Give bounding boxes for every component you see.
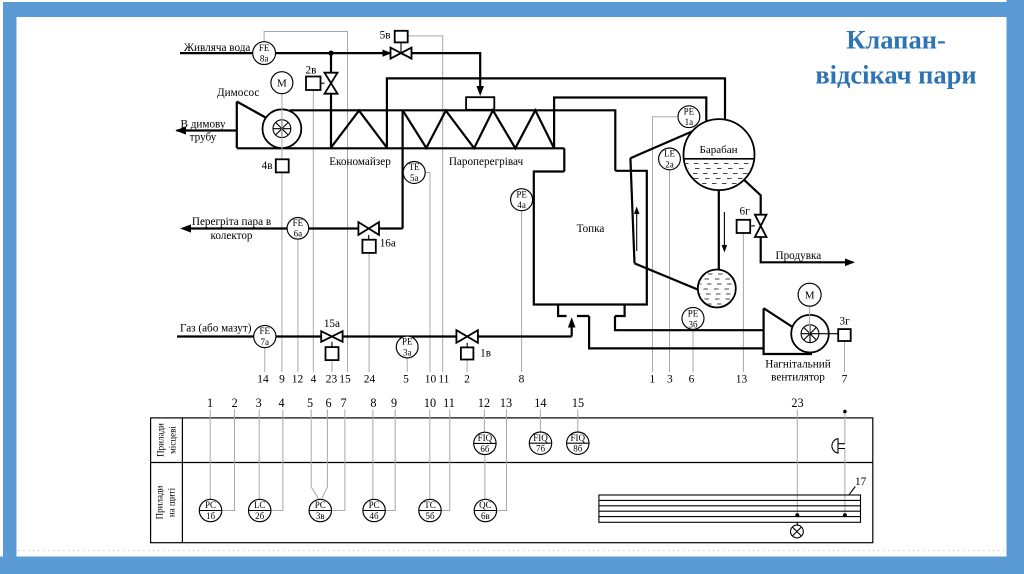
svg-text:PE: PE [516,189,527,199]
svg-text:14: 14 [257,374,269,386]
actuator 4v on exhauster [276,159,289,172]
svg-text:6а: 6а [294,229,303,239]
svg-text:4: 4 [279,396,285,410]
node dot bell line on annunciator [843,513,847,517]
svg-text:PC: PC [205,500,216,510]
wire panel drop 1 to PC1b [209,410,211,500]
wire FE7a to 14 [264,348,266,372]
economizer coil zigzag [331,111,387,148]
NUMROW [257,374,847,386]
svg-text:Топка: Топка [577,223,605,235]
svg-text:6б: 6б [480,444,490,454]
EQUIP [175,94,838,354]
instrument FE 8a [253,42,276,65]
svg-text:Продувка: Продувка [776,250,822,262]
svg-text:5а: 5а [410,173,419,183]
svg-text:місцеві: місцеві [168,426,178,454]
svg-text:відсікач пари: відсікач пари [815,60,976,90]
svg-text:8: 8 [519,374,525,386]
svg-text:7а: 7а [261,337,270,347]
svg-text:LE: LE [664,149,675,159]
wire panel drop 8 to PC4b [372,410,374,500]
wire air duct lower line [589,316,764,348]
arrow riser flow up [634,207,640,252]
wire FE8a to 15 [264,32,347,373]
wire economizer outlet riser to drum [387,78,725,147]
instrument FE 7a [254,325,276,347]
instrument PE 3b [682,307,704,329]
BUBBLES [253,42,821,358]
wire motor M exhauster shaft [281,94,283,160]
forced draft fan wheel [801,325,819,343]
panel wire number row [207,396,804,410]
svg-text:3: 3 [667,374,673,386]
svg-text:5: 5 [403,374,409,386]
svg-text:3г: 3г [840,316,851,328]
svg-text:3б: 3б [688,319,698,329]
instrument LC 2b [249,499,271,521]
svg-text:12: 12 [478,396,490,410]
svg-text:QC: QC [479,500,492,510]
svg-text:4в: 4в [262,160,273,172]
instrument TC 5b [419,499,441,521]
wire bell line from diagram 7 [844,412,846,516]
instrument FIQ 6b [474,432,496,454]
arrow feed into valve 5v [383,50,392,57]
wire blowdown after valve 6g [761,237,853,262]
wire 3g to 7 [844,341,846,372]
wire gas riser into burner [571,326,573,337]
wire gas line [177,335,572,337]
wire 6g to 13 [742,233,744,372]
frame right blue bar [1007,0,1024,574]
panel table row divider [151,462,873,464]
wire panel drop 12 through FIQ6b to QC6v [483,410,486,500]
svg-text:1б: 1б [206,511,216,521]
instrument PE 3a [396,336,418,358]
svg-text:11: 11 [443,396,455,410]
arrow blowdown [845,259,855,267]
svg-text:1: 1 [207,396,213,410]
svg-text:FIQ: FIQ [478,433,493,443]
drum Baraban shell [684,119,755,190]
svg-text:М: М [805,290,815,302]
svg-text:3в: 3в [316,511,325,521]
svg-text:1: 1 [649,374,655,386]
svg-text:4б: 4б [370,511,380,521]
svg-text:6г: 6г [740,206,751,218]
TITLE [815,25,976,90]
svg-text:7б: 7б [536,444,546,454]
wire blowdown from drum [744,180,761,215]
panel table frame [151,418,873,543]
svg-text:9: 9 [391,396,397,410]
wire PE3b to 6 [692,329,694,372]
svg-text:PE: PE [688,309,699,319]
svg-text:Нагнітальний: Нагнітальний [765,359,830,371]
instrument PC 1b [199,499,221,521]
svg-text:8а: 8а [260,54,269,64]
svg-text:7: 7 [842,374,848,386]
wire panel drop 4 [271,410,283,511]
furnace Topka outline [534,171,647,305]
riser wall channel left [630,158,634,263]
wire flue duct bottom [237,147,565,149]
wire flue duct top [290,110,615,171]
svg-text:Клапан-: Клапан- [846,25,946,55]
svg-text:Економайзер: Економайзер [329,156,391,168]
wire feed water line [180,53,480,91]
instrument FIQ 8b [567,432,589,454]
VALVES [262,30,851,361]
svg-text:Пароперегрівач: Пароперегрівач [449,156,524,168]
wire PE1a to 1 [653,117,678,372]
svg-text:М: М [277,78,287,90]
valve 15a on gas line [321,331,342,360]
wire feed branch to economizer (through valve 2v) [330,53,332,148]
svg-text:4а: 4а [517,200,526,210]
frame left blue bar [3,2,17,557]
svg-text:2: 2 [232,396,238,410]
wire drum steam to superheater [554,98,706,149]
wire panel drop 5 into PC3v [311,410,318,499]
svg-text:10: 10 [424,396,436,410]
motor M forced draft fan [798,283,821,306]
svg-text:5: 5 [307,396,313,410]
svg-text:В димову: В димову [180,119,226,131]
svg-text:PE: PE [684,106,695,116]
attemperator header box [466,97,494,110]
superheater coil zigzag [403,110,554,148]
valve 2v on economizer branch [306,73,338,94]
burner box under furnace [558,305,625,317]
annunciator strip box [599,495,861,522]
bell alarm symbol [832,439,845,453]
svg-text:2: 2 [464,374,470,386]
frame bottom blue bar [0,557,1024,574]
svg-text:Перегріта пара в: Перегріта пара в [192,216,271,228]
wire panel drop 14 to FIQ7b [539,410,541,433]
svg-text:14: 14 [534,396,546,410]
svg-text:Живляча вода: Живляча вода [184,42,250,54]
svg-text:8б: 8б [573,444,583,454]
valve 16a on steam line [358,222,379,253]
wire 16a to 24 [368,253,370,372]
svg-text:5б: 5б [425,511,435,521]
valve 5v control valve on feed line [391,31,412,59]
valve 6g blowdown [737,215,767,237]
instrument PE 4a [511,189,533,211]
instrument PC 4b [363,499,385,521]
svg-text:15а: 15а [324,318,340,330]
svg-text:FE: FE [260,326,271,336]
riser channel bottom diagonal to mud drum [635,263,699,290]
wire panel drop 11 [441,410,450,511]
svg-text:3а: 3а [403,347,412,357]
wire LE2a to 3 [669,170,671,372]
arrow gas into burner [568,317,576,327]
svg-text:23: 23 [326,374,338,386]
mud drum shell [698,270,736,308]
wire air duct upper line [615,316,764,330]
svg-text:Прилади: Прилади [156,423,166,457]
svg-text:11: 11 [438,374,449,386]
lamp symbol [791,522,804,538]
svg-text:17: 17 [855,476,867,488]
dotted inner border bottom [18,550,1005,552]
svg-text:трубу: трубу [190,132,217,144]
svg-text:24: 24 [364,374,376,386]
mud drum water dashes [698,274,736,304]
wire PE3a to 5 [406,358,408,372]
wire motor M fan shaft [809,306,811,334]
arrow downcomer flow down [722,212,728,253]
wire fan outlet to 3g [819,333,838,335]
wire panel drop 9 [385,410,395,511]
valve 1v on gas line [456,330,478,359]
forced draft fan housing [764,308,812,354]
smoke exhauster fan scroll circle [263,109,302,148]
wire panel drop 13 [497,410,507,511]
wire 2v to 4 [312,90,314,372]
node feed water junction [328,51,333,56]
svg-text:15: 15 [339,374,351,386]
arrow to chimney [175,126,186,134]
actuator 3g on fan [838,329,851,341]
wire superheated steam line to collector [184,227,403,229]
svg-text:6: 6 [689,374,695,386]
wire PE4a to 8 [521,211,523,372]
wire superheater outlet down to steam line [402,110,404,228]
panel table label column divider [181,418,183,543]
wire duct step down to furnace top [563,148,565,171]
wire panel drop 2 [222,410,235,511]
svg-text:4: 4 [311,374,317,386]
svg-text:FE: FE [259,43,270,53]
node dot top of bell line [843,410,847,414]
svg-text:16а: 16а [380,238,396,250]
frame top blue bar [3,2,1007,17]
svg-text:LC: LC [254,500,266,510]
svg-text:9: 9 [279,374,285,386]
drum water level and dashes [684,159,755,184]
wire panel drop 3 to LC2b [258,410,260,500]
svg-text:FE: FE [293,218,304,228]
wire panel drop 23 to annunciator [796,410,798,516]
svg-text:1а: 1а [685,117,694,127]
wire FE6a to 12 [297,239,299,372]
wire panel drop 6 into PC3v [322,410,328,499]
wire 5v to 11 [408,36,443,372]
instrument LE 2a [659,148,681,170]
svg-text:15: 15 [572,396,584,410]
svg-text:2в: 2в [306,65,317,77]
smoke exhauster fan wheel [273,120,291,138]
svg-text:12: 12 [292,374,304,386]
svg-text:3: 3 [256,396,262,410]
svg-text:13: 13 [736,374,748,386]
PIPES [177,50,855,349]
svg-text:PE: PE [402,337,413,347]
svg-text:Димосос: Димосос [217,87,259,99]
svg-text:PC: PC [315,500,326,510]
wire 1v to 2 [466,360,468,372]
svg-text:колектор: колектор [210,230,252,242]
svg-text:TC: TC [424,500,436,510]
wire TE5a to 10 [425,173,430,373]
svg-text:Барабан: Барабан [700,144,738,156]
svg-text:на щиті: на щиті [167,487,177,517]
svg-text:23: 23 [791,396,803,410]
label 17 with leader [849,476,867,495]
forced draft fan scroll circle [791,315,829,353]
svg-text:Газ (або мазут): Газ (або мазут) [180,323,252,335]
svg-text:PC: PC [369,500,380,510]
svg-text:FIQ: FIQ [533,433,548,443]
wire panel drop 10 to TC5b [429,410,431,500]
svg-text:FIQ: FIQ [571,433,586,443]
svg-text:13: 13 [500,396,512,410]
instrument FIQ 7b [529,432,551,454]
instrument FE 6a [287,218,309,240]
arrow steam to collector [180,224,191,232]
PANEL [151,396,873,543]
smoke exhauster fan housing [177,102,267,149]
svg-text:2а: 2а [665,159,674,169]
instrument PE 1a [678,106,700,128]
wire 15a to 23 [331,360,333,372]
motor M smoke exhauster [271,72,293,94]
svg-text:6: 6 [325,396,331,410]
svg-text:Прилади: Прилади [155,485,165,519]
svg-text:10: 10 [425,374,437,386]
arrow feed water down into attemperator [476,86,484,96]
svg-text:6в: 6в [481,511,490,521]
riser channel top diagonal to drum [630,132,692,159]
svg-text:2б: 2б [255,511,265,521]
wire panel drop 15 to FIQ8b [577,410,579,433]
instrument QC 6v [474,499,496,521]
instrument TE 5a [403,162,425,184]
svg-text:1в: 1в [480,348,491,360]
wire downcomer drum to mud drum [718,190,720,270]
wire motor M dymosos shaft and 4v to 9 [281,172,283,372]
svg-text:8: 8 [370,396,376,410]
instrument PC 3v [309,499,331,521]
svg-text:7: 7 [341,396,347,410]
node dot wire 23 on annunciator [795,513,799,517]
wire panel drop 7 [332,410,345,511]
svg-text:TE: TE [409,162,420,172]
svg-text:5в: 5в [380,30,391,42]
GRAYLINES [264,32,844,373]
svg-text:вентилятор: вентилятор [771,372,825,384]
